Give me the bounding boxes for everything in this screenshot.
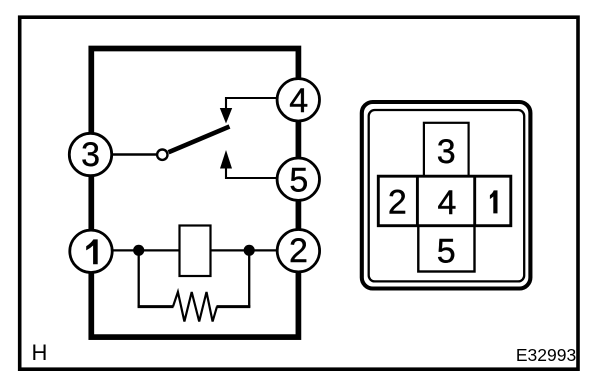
svg-text:4: 4 <box>289 82 308 120</box>
svg-text:H: H <box>32 340 48 365</box>
svg-text:4: 4 <box>438 184 457 222</box>
svg-text:2: 2 <box>388 183 407 221</box>
svg-text:3: 3 <box>437 133 456 171</box>
svg-text:E32993: E32993 <box>516 345 576 365</box>
svg-text:5: 5 <box>289 161 308 199</box>
svg-text:5: 5 <box>437 232 456 270</box>
svg-text:3: 3 <box>81 136 100 174</box>
svg-text:2: 2 <box>289 232 308 270</box>
